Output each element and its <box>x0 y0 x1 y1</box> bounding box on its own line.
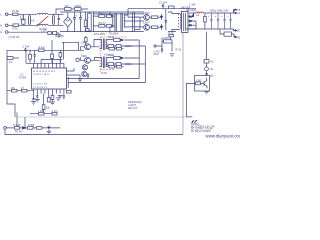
wire bridge top <box>67 12 69 17</box>
svg-text:(D): (D) <box>210 74 214 77</box>
transformer T1 secondary bars <box>121 13 122 31</box>
svg-text:-12: -12 <box>237 37 240 40</box>
resistor R27 below rail right2 <box>59 53 62 57</box>
T3 winding right <box>105 40 108 50</box>
control rail horizontal <box>7 49 62 51</box>
svg-text:R1 225: R1 225 <box>55 34 64 38</box>
capacitor CY pair <box>58 14 60 25</box>
svg-text:+1: +1 <box>237 12 240 15</box>
wire Q3 collector up <box>94 40 100 47</box>
mid low verticals <box>17 112 25 127</box>
wire T2 right top <box>188 12 196 14</box>
svg-text:L2: L2 <box>197 14 200 17</box>
snubber wires <box>156 35 170 50</box>
choke L1 winding top <box>37 13 48 14</box>
wire from snubber down <box>51 40 53 54</box>
svg-text:47uF: 47uF <box>154 54 160 56</box>
wire L rail <box>8 13 37 15</box>
svg-text:+: + <box>82 14 84 17</box>
svg-text:13007: 13007 <box>143 22 150 25</box>
svg-text:CX: CX <box>31 19 35 23</box>
svg-text:NTC: NTC <box>13 26 18 30</box>
svg-text:R 47k: R 47k <box>39 46 46 49</box>
svg-text:MOV: MOV <box>20 17 26 21</box>
svg-text:2C 2E V C 1E 1C: 2C 2E V C 1E 1C <box>33 74 50 76</box>
red dash top edge <box>100 36 127 38</box>
parts under IC pins <box>51 95 54 99</box>
svg-text:+: + <box>208 16 210 18</box>
transistor Q2 <box>144 24 150 30</box>
bridge rectifier BD1 <box>64 17 72 27</box>
transistor Q5 <box>82 65 87 70</box>
resistor R19 below IC <box>42 105 45 110</box>
snubber circle terminal <box>154 45 156 47</box>
fb transistor Q6 <box>204 81 207 89</box>
control rail left vertical <box>6 50 8 90</box>
feedback long vertical <box>182 32 184 135</box>
secondary tap diode D5s <box>188 21 196 29</box>
wire snubber top <box>128 9 196 15</box>
svg-text:TR-2805: TR-2805 <box>109 32 119 35</box>
svg-text:www.dianyuan.com: www.dianyuan.com <box>206 134 241 139</box>
wires above IC <box>26 50 64 63</box>
output top rail <box>194 12 234 14</box>
resistor under pin12 <box>47 98 50 102</box>
capacitor C22 below rail <box>33 50 35 63</box>
svg-text:F1 5A: F1 5A <box>12 9 19 13</box>
T2 winding left <box>180 14 183 30</box>
driver transistor Q4 <box>85 57 91 63</box>
fb transistor box <box>195 76 210 92</box>
wire T1 right top <box>124 15 144 17</box>
wire bridge bottom <box>67 27 69 32</box>
IC top pins <box>34 63 64 68</box>
transistor Q1 <box>144 14 150 20</box>
cap under pin3 <box>63 94 65 100</box>
svg-text:IF-X02: IF-X02 <box>39 27 47 31</box>
svg-text:300-1XT: 300-1XT <box>128 107 138 110</box>
svg-text:L 330: L 330 <box>38 111 44 113</box>
T3 winding left <box>100 40 103 50</box>
T2 core bars <box>184 13 186 31</box>
electrolytic C6 <box>79 12 82 32</box>
IC bottom pins <box>34 89 64 94</box>
bottom box R22 <box>37 127 43 130</box>
output cap C14 <box>224 13 226 29</box>
svg-text:1 2 F DT C R 3: 1 2 F DT C R 3 <box>33 84 48 86</box>
wires T3 right loop <box>122 40 145 46</box>
driver transistor Q3 <box>85 44 91 50</box>
svg-text:C2012: C2012 <box>163 38 170 40</box>
svg-text:222M: 222M <box>75 5 81 8</box>
resistor R14 <box>114 57 121 60</box>
fuse F1 <box>13 13 19 15</box>
drive transformer T4 bars <box>103 57 104 69</box>
svg-text:C 47u: C 47u <box>52 111 59 113</box>
wire G rail <box>8 31 48 33</box>
output filter box -12V <box>224 32 232 36</box>
capacitor C18b <box>117 65 122 68</box>
electrolytic C5 <box>73 12 76 32</box>
varistor RV1 <box>22 20 26 24</box>
wire left IC col <box>6 89 8 91</box>
DC bus top rail <box>60 11 144 13</box>
bottom terminal PS-ON <box>4 127 7 130</box>
capacitor C17b <box>117 47 122 50</box>
resistor top R16 <box>169 35 174 37</box>
terminal -12V arrow <box>234 34 237 38</box>
svg-text:CO: CO <box>237 30 240 33</box>
wires driver <box>62 47 95 61</box>
svg-text:C2012: C2012 <box>125 46 132 48</box>
capacitor C10 <box>165 14 167 30</box>
Y-cap G box1 <box>48 31 51 34</box>
svg-text:+: + <box>221 16 223 18</box>
svg-text:DC INPUT AC220V: DC INPUT AC220V <box>191 130 211 133</box>
junction circle <box>76 58 79 61</box>
ground under pin15 <box>35 99 40 102</box>
ground below C20 <box>31 102 36 105</box>
capacitor C9 <box>106 25 111 28</box>
bottom box R21 <box>28 127 34 130</box>
thermistor NTC1 <box>13 24 19 27</box>
svg-text:13007: 13007 <box>143 12 150 15</box>
capacitor C16 <box>24 48 26 52</box>
wire after choke bottom <box>48 24 63 26</box>
wires T4 right loop <box>122 58 145 64</box>
bottom wire <box>6 127 60 129</box>
svg-text:+: + <box>227 16 229 18</box>
ground under pin <box>50 102 55 105</box>
DC bus bottom rail <box>60 31 144 33</box>
wire jog Q1 <box>135 17 140 29</box>
terminal +5V arrow <box>234 9 238 13</box>
resistor R25 below rail <box>29 54 32 59</box>
svg-text:R 560: R 560 <box>28 125 35 127</box>
wire T2 left bottom <box>168 30 180 32</box>
svg-text:1N: 1N <box>210 68 213 71</box>
secondary tap diode D4 <box>188 20 196 22</box>
fb ground <box>204 91 209 94</box>
T4 winding left <box>100 58 103 68</box>
output cap C13 <box>217 13 219 29</box>
secondary tap bottom <box>188 28 196 30</box>
bottom resistor R20 <box>15 127 20 130</box>
left low vertical <box>7 90 15 117</box>
diode D6 <box>121 57 123 59</box>
T2 red polarity dashes <box>178 14 180 29</box>
output cap C15 <box>230 13 232 29</box>
transistor Q6b <box>82 71 87 76</box>
loop wire bottom A <box>66 78 139 80</box>
T1 winding left <box>111 15 114 27</box>
capacitor C11 top <box>162 3 164 8</box>
svg-text:SBL2040: SBL2040 <box>186 9 197 12</box>
svg-text:1 2 3 4 5 6 7 8: 1 2 3 4 5 6 7 8 <box>33 87 48 89</box>
secondary tap diode D3 <box>188 13 194 18</box>
choke L1 winding bottom <box>37 24 48 25</box>
capacitor C4 aux <box>75 8 82 11</box>
small box on bus rail <box>86 29 89 32</box>
svg-text:+: + <box>215 16 217 18</box>
wire T1 left top <box>110 12 113 15</box>
resistor R26 below rail right <box>51 54 54 58</box>
svg-text:R 510: R 510 <box>108 55 115 57</box>
ground chassis <box>57 35 61 38</box>
svg-text:R 10: R 10 <box>169 33 175 35</box>
svg-text:R6 2.2: R6 2.2 <box>99 22 107 25</box>
ground under pin10 <box>58 95 63 98</box>
resistor R10 <box>39 49 45 52</box>
resistor R12 <box>114 39 121 42</box>
resistor R2 vertical <box>84 20 87 27</box>
fb resistor R24 <box>196 82 201 85</box>
svg-text:R 510: R 510 <box>108 37 115 39</box>
big filter cap C7 <box>88 13 92 31</box>
choke L1 red core stripe <box>37 16 49 26</box>
cap pair below <box>38 113 44 115</box>
wires right of IC <box>66 68 80 82</box>
wire T2 left top <box>168 12 180 14</box>
parts right of IC <box>78 75 82 82</box>
feedback wire corner <box>187 83 195 116</box>
capacitor C17 <box>116 45 121 48</box>
wire T1 right mid <box>124 20 144 22</box>
wire after choke top <box>48 13 63 15</box>
below IC resistors R17 R18 <box>12 89 18 92</box>
svg-text:PS-ON: PS-ON <box>15 132 23 134</box>
capacitor C18 <box>116 63 121 66</box>
wire bus mid vertical <box>92 12 94 32</box>
svg-text:(?) 94 4A: (?) 94 4A <box>9 35 20 39</box>
T4 winding right <box>105 58 108 68</box>
diode D5 <box>121 39 123 41</box>
wire row1 <box>93 15 114 17</box>
terminal +12V arrow <box>234 12 238 13</box>
wire mid link <box>62 42 79 50</box>
resistor right of IC bottom <box>67 90 72 93</box>
svg-text:C 104: C 104 <box>23 46 30 49</box>
bottom rail <box>5 129 183 134</box>
svg-text:IF-10: IF-10 <box>176 49 182 52</box>
wire above IC second <box>41 60 62 64</box>
cap under pin15 <box>36 94 38 99</box>
cap C20 below IC <box>33 94 35 99</box>
loop wire bottom B <box>68 77 145 88</box>
terminal COM arrow <box>234 29 238 31</box>
capacitor C19 <box>87 73 89 78</box>
capacitor CX2 <box>53 14 55 25</box>
snubber cap <box>161 49 163 53</box>
output resistor R9 <box>204 17 207 23</box>
resistor R13 <box>108 45 114 48</box>
snubber box U3 <box>164 40 173 43</box>
snubber right wire <box>171 43 173 52</box>
drive transformer T3 bars <box>103 39 104 51</box>
svg-text:TL494: TL494 <box>19 77 27 80</box>
capacitor C11b top <box>169 6 175 9</box>
svg-text:104: 104 <box>65 5 70 8</box>
svg-text:10k: 10k <box>46 108 51 110</box>
svg-text:C 104: C 104 <box>189 3 196 6</box>
svg-text:C2012: C2012 <box>125 64 132 66</box>
wire top aux row <box>56 9 88 14</box>
svg-text:470u 250V: 470u 250V <box>94 34 106 36</box>
wire T1 right bottom <box>124 26 144 28</box>
ground under pin2 <box>56 98 61 101</box>
capacitor CX1 <box>28 14 30 25</box>
svg-text:C945: C945 <box>81 55 87 58</box>
low parts row <box>39 112 45 115</box>
bottom diode D7 <box>23 127 26 130</box>
resistor R7 <box>152 16 158 19</box>
svg-text:16 15 14 13 12 11 10 9: 16 15 14 13 12 11 10 9 <box>33 71 56 73</box>
svg-text:2200u 1000u 16V: 2200u 1000u 16V <box>210 10 229 13</box>
loop wire right verticals <box>139 40 145 83</box>
transformer T2 box <box>182 11 189 32</box>
output cap C12 <box>210 13 212 29</box>
IC U1 TL494 box <box>32 68 67 89</box>
svg-text:R5 2.2: R5 2.2 <box>99 12 107 15</box>
svg-text:G: G <box>0 30 2 34</box>
svg-text:C945: C945 <box>196 80 202 82</box>
resistor R8 <box>152 26 158 29</box>
output bottom rail <box>186 28 234 30</box>
DC bus second rail <box>93 13 143 15</box>
resistor R4 <box>99 25 105 28</box>
resistor R15 <box>108 63 114 66</box>
red dash fragment lower <box>100 69 114 71</box>
ground bottom <box>47 131 52 134</box>
svg-text:3.6: 3.6 <box>9 61 13 64</box>
fb diode ZD1 <box>205 74 207 78</box>
wire T1 left bottom <box>110 27 113 32</box>
svg-text:+: + <box>76 14 78 17</box>
resistor R11 horizontal <box>7 57 13 60</box>
svg-text:L: L <box>0 12 2 16</box>
ground snubber <box>170 54 175 57</box>
T1 winding right <box>123 15 126 27</box>
transformer T1 primary bars <box>115 13 116 31</box>
capacitor C8 <box>106 15 111 18</box>
wires T1 to Q1 Q2 verticals <box>132 12 134 32</box>
capacitor C3 aux <box>65 8 72 11</box>
svg-text:4.2: 4.2 <box>210 61 214 64</box>
bottom cap C21 <box>48 126 51 131</box>
long mid wire <box>17 116 192 118</box>
svg-text:IF-30: IF-30 <box>101 72 107 75</box>
Y-cap G box2 <box>53 31 57 34</box>
fb opto circle <box>205 67 209 71</box>
diode D1 <box>160 14 162 20</box>
svg-text:N: N <box>0 23 2 27</box>
svg-text:D 4148: D 4148 <box>13 125 21 127</box>
diode D2 <box>160 24 162 30</box>
inductor L2 red <box>196 12 204 13</box>
wire Q4 collector up <box>95 58 100 61</box>
resistor R13b <box>109 47 115 50</box>
svg-text:C7 104: C7 104 <box>159 1 167 4</box>
wire row2 <box>93 25 114 27</box>
logo mark <box>191 120 197 123</box>
fb resistor R23 <box>204 60 209 64</box>
wire drop from G row <box>63 42 65 59</box>
resistor R15b <box>109 65 115 68</box>
wire N rail <box>8 24 37 26</box>
resistor R3 <box>99 15 105 18</box>
red dashed separator <box>99 37 101 72</box>
resistor above Q3 <box>85 38 88 42</box>
